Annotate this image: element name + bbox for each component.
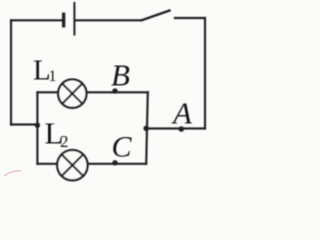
wire right rail of parallel section (146, 92, 148, 164)
wire left connector into parallel section (11, 123, 37, 125)
svg-text:C: C (112, 131, 133, 164)
svg-text:A: A (171, 96, 193, 131)
wire battery to switch (75, 19, 140, 21)
wire left rail of parallel section (36, 92, 38, 164)
wire bottom-right horizontal with node A (146, 127, 205, 129)
node A dot (179, 126, 185, 132)
lamp L1 symbol (58, 79, 86, 107)
wire right vertical (204, 18, 206, 129)
wire main left vertical (10, 20, 12, 124)
wire switch right contact (175, 17, 205, 19)
node B dot (112, 88, 117, 93)
node C dot (112, 160, 117, 165)
wire L1 branch horizontal (37, 91, 147, 93)
wire top horizontal (left of battery) (11, 19, 62, 21)
junction dot left split (35, 123, 40, 128)
battery BT1 (62, 2, 75, 36)
svg-text:B: B (111, 58, 130, 93)
svg-text:1: 1 (49, 68, 57, 85)
svg-text:2: 2 (60, 132, 69, 151)
junction dot right (rail meets A wire) (143, 126, 149, 132)
wire L2 branch horizontal (37, 163, 146, 165)
switch S1 open blade (141, 10, 171, 21)
scan artifact faint pink mark bottom-left (4, 171, 21, 176)
lamp L2 symbol (57, 150, 87, 180)
